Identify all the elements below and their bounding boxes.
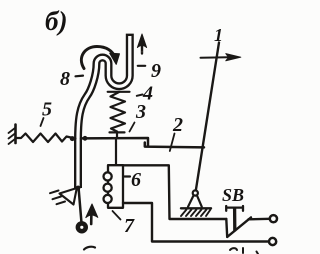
up arrow at weight: [90, 213, 93, 224]
link 2 horizontal bar: [145, 143, 204, 148]
wire: coil top to SB left contact: [123, 165, 226, 219]
pushbutton SB: left contact bend: [225, 219, 228, 237]
junction: spring5 / tube / link3: [70, 136, 75, 141]
link 3 horizontal bar: [81, 138, 148, 146]
cut-off caption stroke (б) at bottom: [84, 247, 95, 250]
terminal circle lower: [269, 238, 276, 245]
svg-text:SB: SB: [222, 185, 244, 205]
solenoid coil 6: core box: [108, 165, 123, 208]
pivot of lever 1: triangle: [188, 196, 202, 207]
label 6 leader dash: [125, 175, 131, 177]
pivot of lever 1: hinge circle: [193, 190, 198, 195]
pivot of lever 1: hatching: [181, 210, 211, 217]
label 3 leader: [130, 123, 135, 132]
speckle: [141, 51, 143, 53]
terminal circle upper: [270, 215, 277, 222]
pivot of tube (fulcrum): triangle: [60, 188, 77, 205]
svg-text:7: 7: [124, 215, 135, 237]
label 7 leader: [113, 211, 121, 220]
wire: coil bottom to lower terminal: [123, 203, 270, 242]
svg-text:5: 5: [42, 99, 52, 121]
coil 6 turn rings: [104, 172, 112, 180]
label 9 leader dash: [138, 65, 145, 67]
label 5 leader: [41, 118, 44, 126]
spring 4: [111, 92, 126, 132]
lever 1: [196, 43, 220, 193]
rod from tube pivot to weight: [79, 187, 82, 223]
armature rod from link 3 to coil 6: [115, 138, 117, 165]
pivot of lever 1: ground line: [181, 207, 211, 209]
wire: SB right contact to upper terminal: [249, 218, 270, 221]
svg-text:1: 1: [214, 25, 223, 45]
tube 8-9 outer wall: [78, 34, 130, 188]
svg-text:9: 9: [151, 60, 161, 82]
spring 5: [16, 134, 76, 143]
svg-text:б): б): [45, 6, 67, 36]
rotation arrow over tube 8: [81, 47, 114, 69]
pivot of tube: hatching: [50, 191, 65, 205]
spring 4 top anchor bar: [108, 91, 130, 93]
svg-text:2: 2: [172, 114, 183, 136]
up arrow at tube 9 outlet: [141, 43, 143, 54]
svg-text:8: 8: [60, 68, 70, 90]
cut-off caption marks bottom right: [230, 248, 258, 254]
pushbutton SB: plunger bar: [226, 206, 243, 211]
label 2 leader: [170, 134, 175, 152]
svg-text:6: 6: [131, 169, 141, 191]
wall anchor for spring 5: [14, 125, 17, 144]
svg-text:3: 3: [135, 101, 146, 123]
label 8 leader dash: [76, 74, 84, 77]
label 4 leader dash: [137, 95, 143, 96]
junction tube/pivot: [76, 186, 81, 191]
weight circle: [78, 223, 86, 231]
spring 4 bottom bar: [110, 132, 125, 137]
force arrow on lever 1: [201, 56, 229, 58]
tube bore (inner white): [78, 36, 130, 188]
pushbutton SB: plunger stem: [233, 209, 236, 231]
pushbutton SB: movable blade: [227, 217, 251, 237]
